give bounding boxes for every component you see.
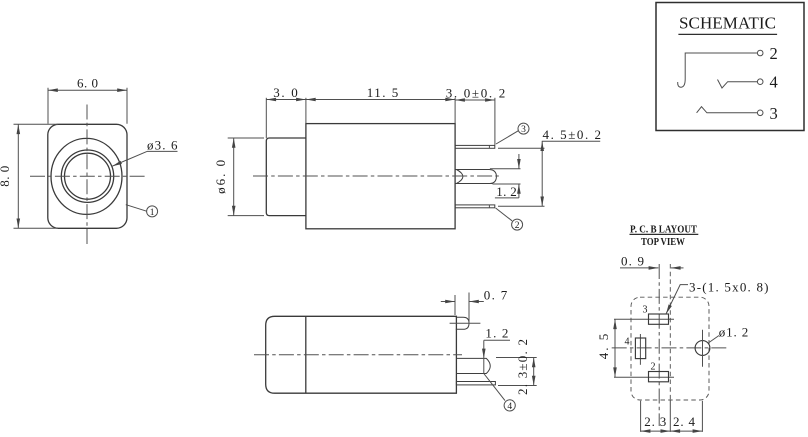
schematic pin 4 terminal circle	[757, 79, 763, 85]
bottom view body outline	[266, 316, 457, 393]
body right edge extension line	[454, 98, 456, 124]
side view pin 3 end tick	[488, 145, 490, 148]
dimension dia 6.0 extension lines	[228, 138, 264, 216]
pcb body center extension (bottom solid)	[669, 400, 671, 432]
dimension 1.2 arrow down to pin top	[483, 340, 485, 358]
pcb horizontal centerline	[612, 347, 730, 349]
dimension 4.5 line	[614, 319, 616, 377]
front view horizontal centerline	[30, 175, 146, 177]
side view pin 2 end tick	[488, 205, 490, 208]
dimension 1.2 underline	[495, 197, 519, 199]
schematic pin 3 terminal circle	[757, 110, 763, 116]
pcb vertical centerline (pads)	[658, 264, 660, 426]
svg-text:3-(1. 5x0. 8): 3-(1. 5x0. 8)	[689, 280, 769, 295]
dimension 2.4 line	[670, 430, 702, 432]
dimension 1.2 up arrow	[518, 184, 520, 198]
pad 2 rectangle	[649, 372, 669, 382]
svg-text:2. 4: 2. 4	[673, 414, 696, 429]
svg-text:ø6. 0: ø6. 0	[213, 160, 228, 194]
dimension 0.7 extension lines	[455, 293, 469, 323]
dimension 8.0 extension lines	[14, 124, 59, 228]
dimension 0.9 arrow left-pointing	[671, 267, 684, 269]
balloon 1 leader	[126, 205, 147, 212]
svg-text:3. 0±0. 2: 3. 0±0. 2	[446, 86, 506, 101]
dimension 6.0 extension lines	[48, 88, 127, 124]
hole 1.2 circle	[695, 341, 710, 356]
label 3-(1.5x0.8) leader	[666, 285, 688, 314]
schematic title underline	[678, 33, 777, 35]
dimension 2.3+-0.2 vertical line	[533, 358, 535, 386]
label dia 3.6 leader	[112, 151, 147, 166]
side view pin 2 (bottom)	[455, 205, 495, 208]
dimension 3.0 extension line left	[265, 98, 267, 138]
svg-text:0. 7: 0. 7	[484, 287, 508, 302]
schematic sleeve contact (pin 3) wire	[697, 107, 758, 113]
svg-text:ø3. 6: ø3. 6	[147, 137, 178, 152]
svg-text:SCHEMATIC: SCHEMATIC	[679, 14, 776, 33]
front view outer barrel circle	[51, 138, 122, 214]
dimension dia 6.0 line	[233, 138, 235, 216]
svg-text:2: 2	[651, 361, 656, 372]
svg-text:3. 0: 3. 0	[273, 85, 298, 100]
schematic pin 2 terminal circle	[757, 50, 763, 56]
dimension 2.3 line	[641, 430, 671, 432]
label dia 1.2 leader	[709, 336, 719, 343]
svg-text:1: 1	[150, 208, 155, 218]
balloon 2 leader	[496, 208, 512, 221]
svg-text:2. 3: 2. 3	[644, 414, 666, 429]
svg-text:ø1. 2: ø1. 2	[719, 325, 749, 340]
balloon 3 circle	[518, 123, 529, 134]
pcb outline (dashed rounded rect)	[631, 297, 709, 400]
pcb vertical dashed line (body center)	[669, 264, 671, 400]
svg-text:0. 9: 0. 9	[621, 253, 644, 268]
balloon 4 leader	[484, 374, 505, 401]
dimension 1.2 down arrow	[518, 154, 520, 169]
side view horizontal centerline	[253, 175, 500, 177]
svg-text:3: 3	[521, 125, 526, 135]
svg-text:4. 5±0. 2: 4. 5±0. 2	[543, 127, 602, 142]
svg-text:4: 4	[625, 336, 630, 347]
schematic switch contact (pin 4) wire	[718, 80, 758, 89]
bottom view sleeve divider line	[305, 316, 307, 393]
pad 3 rectangle	[649, 314, 669, 324]
dimension 0.7 arrow left	[441, 301, 455, 303]
dimension 1.2 line through pin	[483, 358, 485, 373]
pad 4 rectangle	[635, 338, 645, 359]
schematic border box	[656, 3, 804, 131]
dimension 3.0+-0.2 line	[455, 99, 495, 101]
side view pin 3 (top)	[455, 145, 495, 148]
pcb layout title underline	[630, 233, 699, 235]
svg-text:1. 2: 1. 2	[485, 326, 508, 341]
bottom view bottom pin bar	[456, 382, 495, 385]
svg-text:8. 0: 8. 0	[0, 166, 12, 187]
bottom view horizontal centerline	[254, 354, 462, 356]
body left edge extension line	[305, 98, 307, 124]
front view vertical centerline	[86, 105, 88, 247]
svg-text:2: 2	[515, 221, 520, 231]
svg-text:11. 5: 11. 5	[367, 85, 399, 100]
dimension 2.3+-0.2 extension lines	[496, 358, 537, 386]
svg-text:2. 3±0. 2: 2. 3±0. 2	[515, 339, 530, 395]
pin end extension line	[494, 98, 496, 145]
svg-text:4: 4	[507, 402, 512, 412]
front view bushing ring outer	[61, 150, 113, 202]
dimension 2.3 2.4 extension lines	[641, 401, 703, 432]
pad 3 cross line	[614, 318, 674, 320]
front view jack hole circle	[65, 153, 111, 199]
balloon 1 circle	[147, 206, 158, 217]
dimension 1.2 underline (bottom view)	[484, 339, 510, 341]
schematic tip contact (pin 2) wire	[678, 53, 758, 87]
bottom view center pin (pin 4, U-shape)	[456, 358, 490, 373]
svg-text:1. 2: 1. 2	[496, 184, 517, 199]
dimension 4.5+-0.2 shelf line	[542, 140, 600, 142]
dimension 0.7 arrow right	[469, 301, 484, 303]
dimension 4.5+-0.2 vertical line	[541, 141, 543, 206]
pad 4 vertical cross line	[639, 334, 641, 365]
dimension 4.5+-0.2 extension lines	[498, 148, 545, 206]
dimension 1.2 bottom extension line	[493, 183, 521, 185]
front view housing outline	[48, 124, 127, 228]
side view sleeve outline	[266, 138, 306, 216]
dimension 8.0 line	[17, 124, 19, 228]
balloon 2 circle	[512, 219, 523, 230]
bottom view tab center mark	[450, 322, 481, 324]
dimension 6.0 line	[48, 89, 127, 91]
dimension 3.0 line	[266, 99, 306, 101]
hole vertical crosshair	[702, 330, 704, 367]
balloon 4 circle	[504, 400, 515, 411]
label dia 3.6 underline	[147, 150, 178, 152]
dimension 0.9 arrow right-pointing	[620, 267, 658, 269]
svg-text:6. 0: 6. 0	[77, 75, 98, 90]
side view center pin (middle)	[455, 170, 496, 184]
dimension 11.5 line	[306, 99, 455, 101]
svg-text:3: 3	[770, 104, 778, 123]
side view body outline	[306, 124, 455, 229]
svg-text:2: 2	[770, 44, 778, 63]
pad 2 cross line	[614, 376, 674, 378]
svg-text:3: 3	[643, 305, 648, 316]
balloon 3 leader	[496, 131, 519, 144]
svg-text:4: 4	[770, 73, 778, 92]
dimension 1.2 top extension line	[490, 168, 521, 170]
bottom view mounting tab	[456, 317, 469, 329]
svg-text:TOP VIEW: TOP VIEW	[641, 237, 685, 248]
svg-text:4. 5: 4. 5	[596, 334, 611, 360]
